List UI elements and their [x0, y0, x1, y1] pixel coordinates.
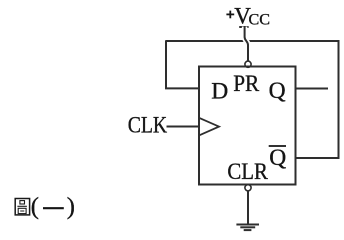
wire: CLK input [167, 126, 200, 128]
svg-text:Q: Q [269, 78, 286, 104]
clock input triangle [199, 118, 219, 136]
wire: VCC drop with hop over feedback wire [245, 27, 248, 62]
svg-text:): ) [67, 193, 75, 220]
wire: Q output stub [296, 88, 329, 90]
svg-text:D: D [211, 78, 228, 104]
VCC terminal bar [239, 26, 248, 28]
figure caption (一) [31, 193, 75, 220]
svg-text:Q: Q [269, 145, 286, 171]
wire: left vertical down to D input [166, 40, 199, 88]
pin label Q-bar [269, 145, 287, 171]
PR bubble (active-low preset) [245, 61, 251, 67]
CLR bubble (active-low clear) [245, 185, 251, 191]
ground [236, 225, 259, 231]
flip-flop U1 body [199, 67, 296, 185]
svg-text:(: ( [31, 193, 39, 220]
svg-text:PR: PR [233, 71, 259, 97]
wire: feedback net from Q-bar to D (top run, right vertical, Q-bar run) [166, 41, 339, 158]
label +VCC [226, 3, 270, 28]
wire: CLR to ground [247, 191, 249, 224]
svg-text:CLR: CLR [227, 159, 268, 185]
figure caption glyph 圖 [15, 199, 29, 215]
svg-text:CC: CC [249, 12, 271, 29]
svg-text:CLK: CLK [128, 112, 168, 138]
